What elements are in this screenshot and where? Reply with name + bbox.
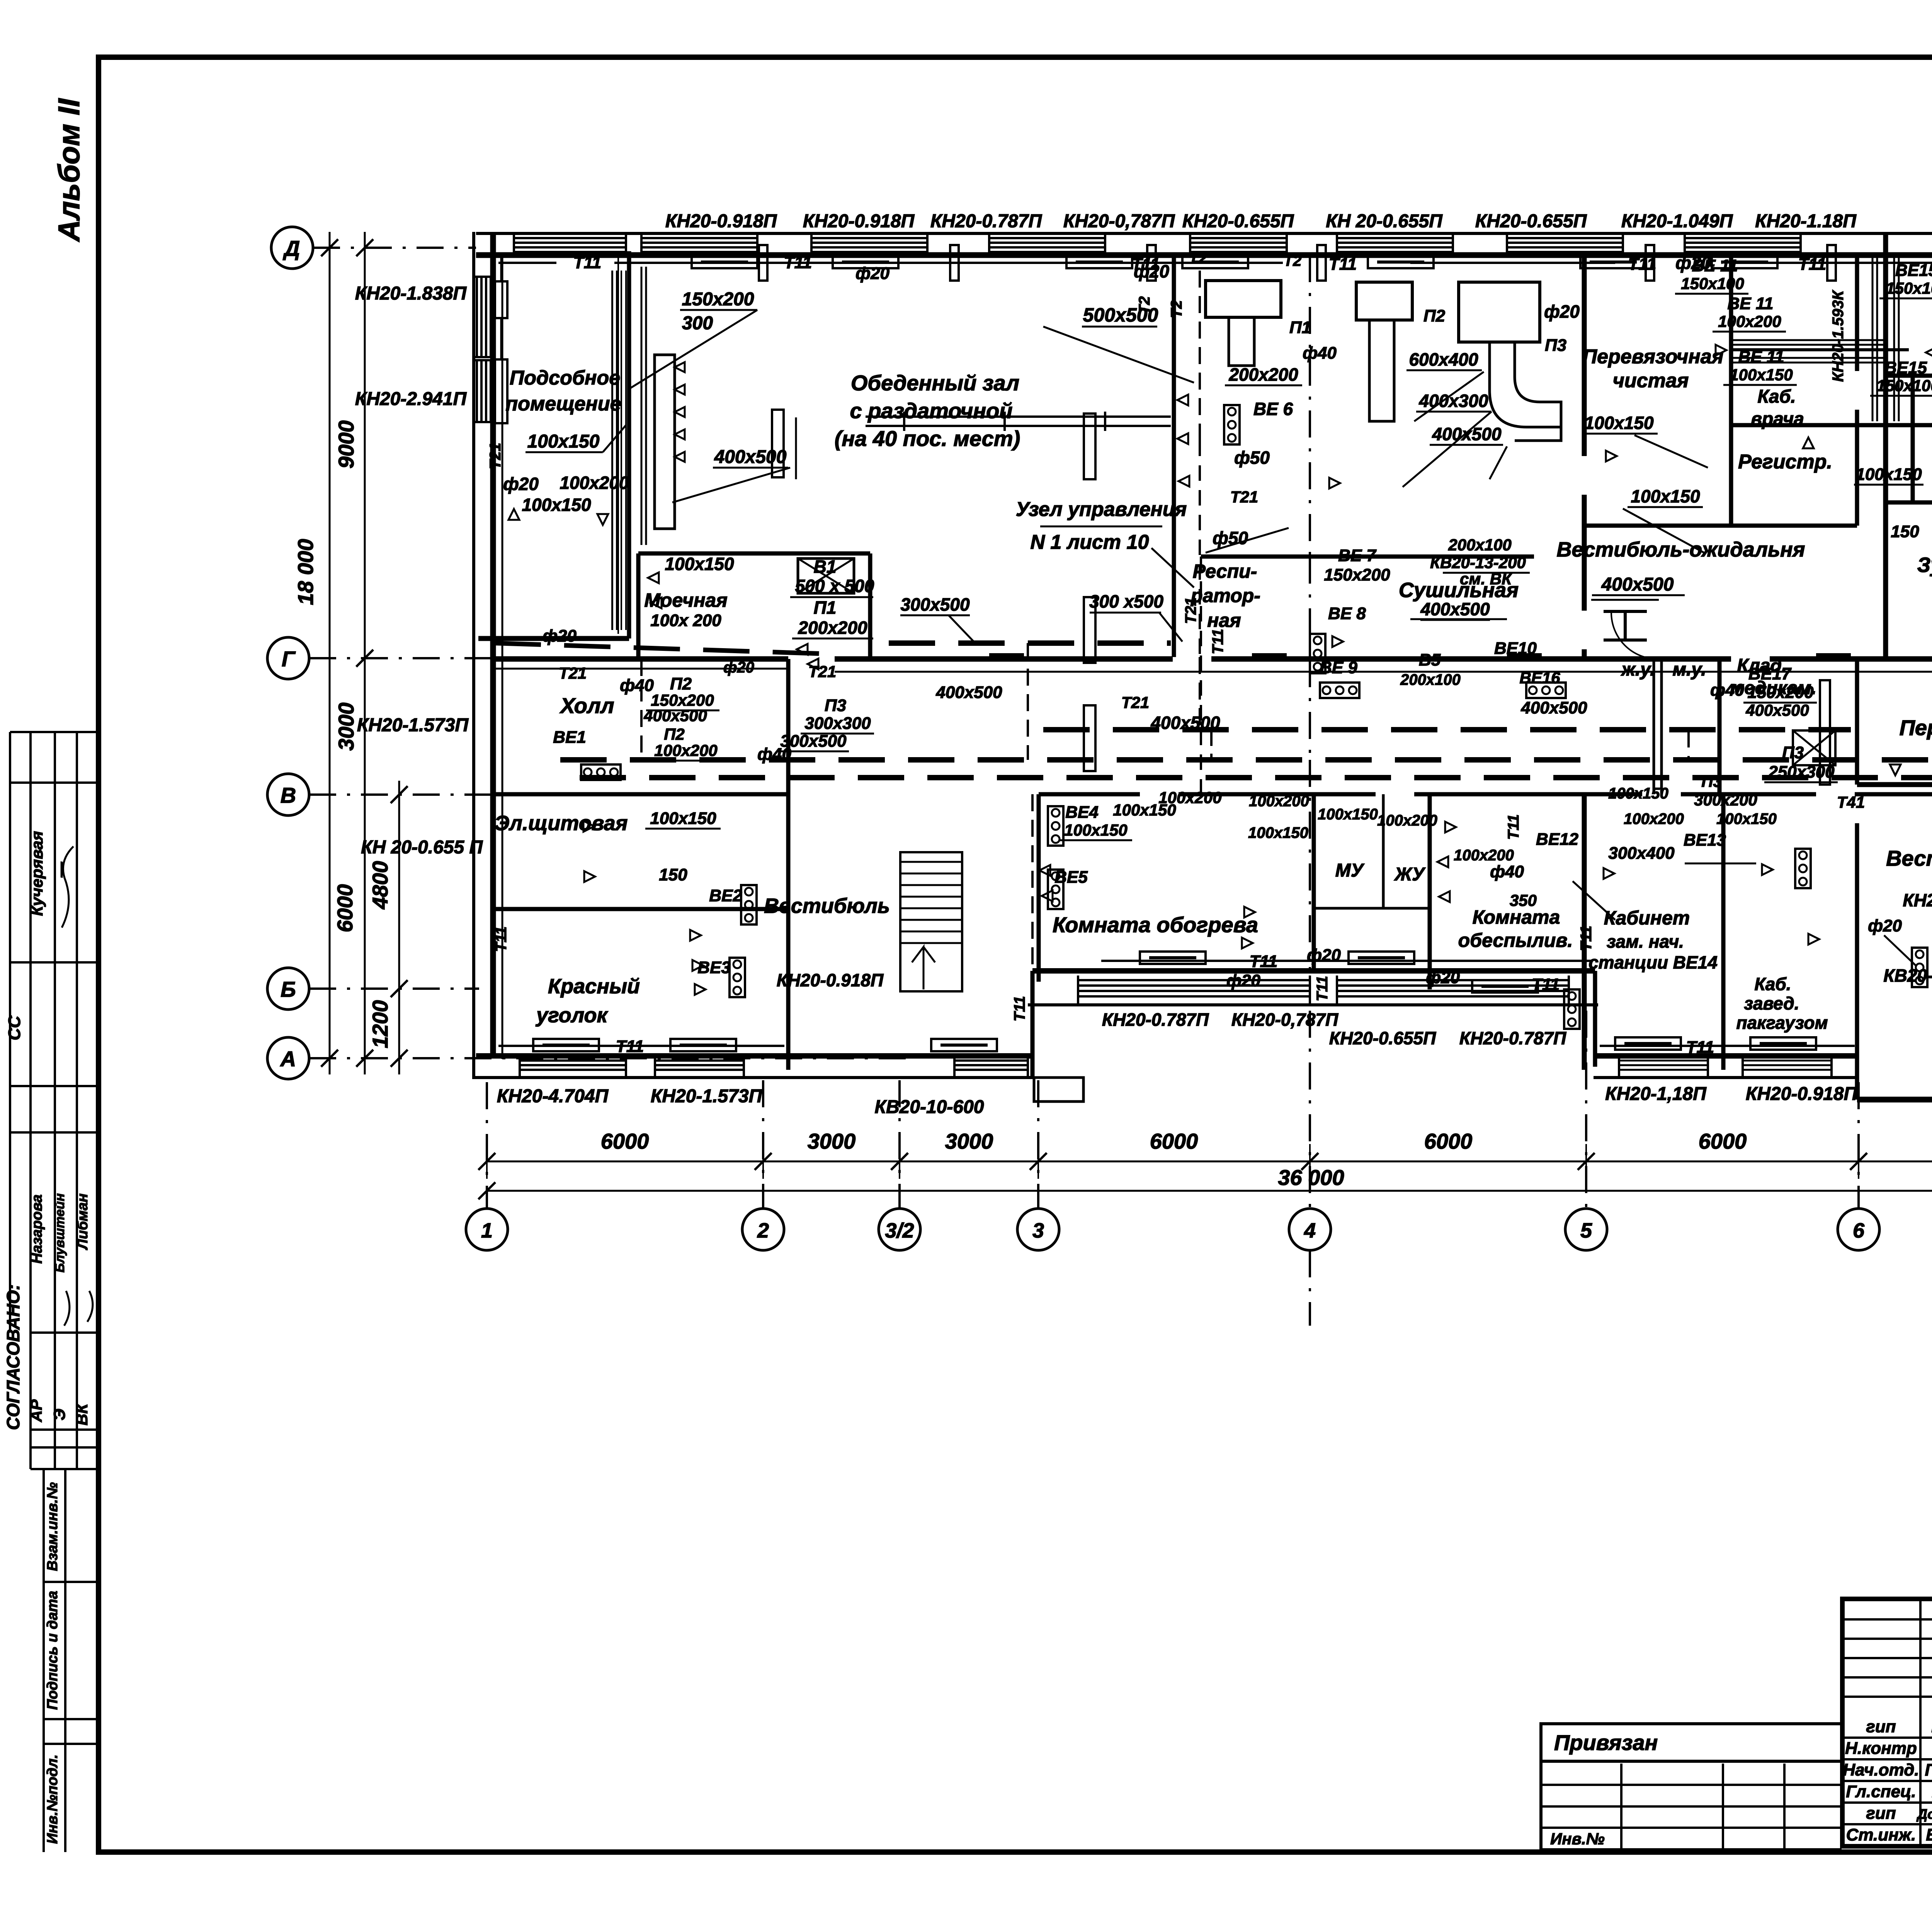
svg-text:Т11: Т11: [493, 926, 510, 952]
dashed box P3 corridor right: [1793, 730, 1835, 765]
sushilnaya walls: [1201, 555, 1534, 559]
svg-text:Т11: Т11: [1628, 255, 1656, 274]
axis circle 4: [1289, 1209, 1331, 1250]
svg-text:ж.у.: ж.у.: [1621, 659, 1655, 680]
svg-text:100х200: 100х200: [1454, 847, 1514, 864]
svg-text:Нач.отд.: Нач.отд.: [1843, 1760, 1919, 1779]
svg-text:ВЕ 7: ВЕ 7: [1338, 546, 1377, 565]
underline strokes for duct labels: [680, 309, 757, 311]
svg-text:П3: П3: [825, 696, 846, 715]
svg-text:100х150: 100х150: [1730, 366, 1793, 384]
svg-text:150х200: 150х200: [682, 289, 754, 310]
supply unit P2: [1356, 282, 1412, 320]
svg-text:КН20-0.655П: КН20-0.655П: [1182, 211, 1294, 232]
komnata vremen left wall: [1911, 376, 1915, 502]
svg-text:Т11: Т11: [616, 1037, 644, 1056]
small wall stub rects along G wall: [989, 653, 1024, 659]
svg-text:КН 20-0.655П: КН 20-0.655П: [1326, 211, 1443, 232]
svg-text:ф20: ф20: [1868, 916, 1902, 935]
svg-text:300х300: 300х300: [804, 714, 871, 733]
svg-text:400х500: 400х500: [1520, 698, 1587, 717]
svg-text:КН20-0.787П: КН20-0.787П: [1459, 1028, 1566, 1048]
svg-text:300х500: 300х500: [900, 594, 969, 615]
svg-text:Т11: Т11: [784, 253, 812, 272]
svg-text:ф40: ф40: [757, 745, 791, 764]
duct runs wing top: [1731, 339, 1886, 341]
svg-text:ф20: ф20: [1544, 301, 1580, 322]
svg-text:Э: Э: [50, 1409, 68, 1420]
svg-text:Каб.: Каб.: [1757, 386, 1796, 407]
svg-text:150х100: 150х100: [1886, 279, 1932, 297]
svg-text:КН20-1.049П: КН20-1.049П: [1621, 211, 1733, 232]
svg-text:Т11: Т11: [573, 253, 602, 272]
svg-text:1200: 1200: [368, 1000, 392, 1049]
svg-text:3/2: 3/2: [885, 1219, 914, 1242]
axis circle G: [267, 637, 309, 679]
svg-text:400х500: 400х500: [714, 447, 787, 467]
svg-text:Обеденный зал: Обеденный зал: [851, 371, 1019, 395]
axis circle A: [267, 1037, 309, 1079]
svg-text:ВЕ 11: ВЕ 11: [1727, 294, 1773, 313]
svg-text:100х200: 100х200: [1377, 812, 1437, 829]
exterior bottom wall: center block: [1032, 968, 1595, 974]
supply unit P3: [1459, 282, 1540, 342]
duct chase wall dining west: [611, 271, 613, 630]
svg-text:4: 4: [1304, 1219, 1316, 1242]
svg-text:400х500: 400х500: [935, 683, 1002, 702]
svg-text:Т21: Т21: [487, 443, 504, 470]
svg-text:П1: П1: [1289, 318, 1311, 337]
svg-text:Т11: Т11: [1578, 926, 1595, 951]
axis6 wall: [1855, 253, 1859, 371]
svg-text:Т11: Т11: [1686, 1038, 1714, 1057]
svg-text:СС: СС: [5, 1015, 24, 1040]
svg-text:Н.контр: Н.контр: [1845, 1739, 1917, 1758]
svg-text:Кабинет: Кабинет: [1604, 907, 1690, 929]
svg-text:П3: П3: [1545, 336, 1566, 355]
svg-text:Холл: Холл: [559, 693, 614, 718]
svg-text:Взам.инв.№: Взам.инв.№: [44, 1482, 61, 1571]
svg-text:6: 6: [1853, 1219, 1865, 1242]
svg-text:400х500: 400х500: [1432, 424, 1501, 444]
riser pipes crossing top wall: [759, 245, 767, 281]
svg-text:м.у.: м.у.: [1672, 659, 1706, 680]
svg-text:ф20: ф20: [723, 659, 754, 676]
exterior left wall: [472, 232, 475, 1079]
svg-text:Подсобное: Подсобное: [510, 367, 620, 389]
svg-text:400х500: 400х500: [1420, 599, 1490, 619]
svg-text:ф50: ф50: [1234, 448, 1270, 468]
svg-text:150х200: 150х200: [1747, 683, 1814, 702]
svg-text:300х400: 300х400: [1608, 844, 1675, 863]
svg-text:400х500: 400х500: [1601, 574, 1674, 595]
kab vracha walls: [1729, 253, 1733, 526]
klad medikam walls: [1718, 659, 1722, 794]
vestibule left wall: [786, 659, 791, 1070]
axis circle 2: [742, 1209, 784, 1250]
svg-text:3000: 3000: [808, 1129, 856, 1153]
svg-text:КН20-1.838П: КН20-1.838П: [355, 283, 467, 304]
svg-text:В: В: [281, 783, 296, 807]
svg-text:гип: гип: [1866, 1804, 1896, 1823]
svg-text:ф20: ф20: [1307, 946, 1341, 965]
left dimension chain 18000: [329, 232, 331, 1074]
svg-text:Т2: Т2: [1284, 252, 1302, 269]
axis line A: [309, 1057, 908, 1059]
svg-text:помещение: помещение: [505, 393, 621, 415]
svg-text:150х100: 150х100: [1681, 274, 1744, 293]
svg-text:ф20: ф20: [503, 474, 539, 494]
svg-text:400х500: 400х500: [1150, 713, 1220, 733]
exterior bottom wall: left block: [476, 1053, 1032, 1059]
svg-text:Г: Г: [282, 647, 296, 671]
svg-text:200х100: 200х100: [1448, 536, 1512, 554]
svg-text:150х100: 150х100: [1876, 376, 1932, 395]
axis circle 3/2: [879, 1209, 920, 1250]
svg-text:ВЕ4: ВЕ4: [1065, 803, 1099, 822]
svg-text:Каб.: Каб.: [1754, 974, 1791, 994]
svg-text:КН20-0.655П: КН20-0.655П: [1475, 211, 1587, 232]
svg-text:КН20-1.573К: КН20-1.573К: [1903, 890, 1932, 910]
svg-text:КН20-1,18П: КН20-1,18П: [1605, 1084, 1707, 1104]
svg-text:200х200: 200х200: [798, 618, 867, 638]
svg-text:КН20-0,787П: КН20-0,787П: [1063, 211, 1175, 232]
svg-text:Вестибюль-ожидальня: Вестибюль-ожидальня: [1557, 538, 1805, 561]
svg-text:КН20-0.918П: КН20-0.918П: [777, 970, 884, 990]
svg-text:ВЕ17: ВЕ17: [1748, 664, 1792, 683]
svg-text:обеспылив.: обеспылив.: [1458, 930, 1573, 951]
svg-text:ф40: ф40: [1303, 344, 1337, 363]
vent grille boxes: [581, 764, 621, 780]
duct riser columns dining: [772, 410, 784, 477]
svg-text:Т2: Т2: [1136, 296, 1153, 315]
wall G axis (main corridor wall): [492, 656, 788, 662]
uzel upravleniya wall: [1172, 253, 1176, 657]
svg-text:100х200: 100х200: [1249, 793, 1309, 810]
svg-text:П2: П2: [664, 725, 685, 743]
svg-text:Либман: Либман: [75, 1193, 91, 1251]
svg-text:пакгаузом: пакгаузом: [1736, 1013, 1828, 1033]
svg-text:Доброславский: Доброславский: [1916, 1806, 1932, 1822]
vertical axis dash-dot lines: [486, 1082, 488, 1209]
bottom dimension line (bays): [487, 1161, 1932, 1163]
svg-text:Т21: Т21: [808, 662, 836, 681]
svg-text:уголок: уголок: [535, 1004, 608, 1027]
svg-text:Красный: Красный: [548, 975, 640, 998]
svg-text:200х100: 200х100: [1400, 671, 1461, 688]
svg-text:КВ20-10-600: КВ20-10-600: [874, 1097, 984, 1117]
svg-text:П1: П1: [814, 598, 837, 618]
wc center walls: [1382, 794, 1385, 908]
axis5 wall: [1582, 253, 1587, 456]
duct flanges on dining duct: [903, 412, 905, 431]
axis line D: [313, 247, 476, 249]
duct wall lines dining: [617, 255, 619, 634]
dashed heating mains T21: [560, 757, 1932, 763]
svg-text:завед.: завед.: [1744, 993, 1799, 1013]
entrance porch left vestibule: [1034, 1078, 1083, 1102]
svg-text:ВЕ2: ВЕ2: [709, 886, 742, 905]
svg-text:100х200: 100х200: [1718, 312, 1781, 330]
svg-text:150: 150: [1891, 522, 1919, 541]
svg-text:Т11: Т11: [1505, 814, 1522, 840]
svg-text:ратор-: ратор-: [1190, 585, 1260, 606]
axis circle V: [267, 774, 309, 815]
svg-text:Назарова: Назарова: [29, 1194, 45, 1263]
svg-text:Д: Д: [283, 236, 300, 260]
svg-text:Т2: Т2: [1168, 300, 1185, 318]
svg-text:100х200: 100х200: [654, 741, 718, 759]
svg-text:100х150: 100х150: [1318, 806, 1378, 823]
svg-text:КН20-4.704П: КН20-4.704П: [497, 1086, 609, 1107]
exterior bottom wall: office block: [1595, 1053, 1857, 1059]
el. shchitovaya bottom wall: [492, 907, 788, 911]
svg-text:КН20-0.918П: КН20-0.918П: [803, 211, 915, 232]
right wing walls: [1883, 233, 1888, 659]
svg-text:—: —: [52, 861, 69, 878]
svg-text:ВЕ15: ВЕ15: [1884, 358, 1927, 377]
margin stack: vzam inv / podpis i data / inv n podl: [43, 1469, 45, 1852]
radiators along bottom walls: [498, 1045, 784, 1047]
leader lines: [630, 310, 757, 388]
svg-text:Комната обогрева: Комната обогрева: [1053, 913, 1258, 937]
svg-text:Белькевич: Белькевич: [1926, 1825, 1932, 1844]
svg-text:ВЕ 6: ВЕ 6: [1253, 399, 1293, 419]
svg-text:П3: П3: [1701, 772, 1722, 790]
svg-text:П2: П2: [1423, 306, 1446, 325]
dashed branch verticals: [640, 659, 643, 760]
svg-text:Вестибюль: Вестибюль: [764, 894, 890, 918]
porch windows center: [1078, 979, 1310, 981]
svg-text:Т21: Т21: [1121, 693, 1149, 712]
axis line B: [309, 987, 479, 990]
bottom dimension line 36000: [487, 1190, 1932, 1192]
heating pipe T11 top: [498, 262, 556, 264]
duct to moechnaya B1: [798, 558, 854, 593]
svg-text:ВЕ12: ВЕ12: [1536, 830, 1579, 849]
svg-text:КН20-0.787П: КН20-0.787П: [930, 211, 1043, 232]
heating room right wall: [1312, 794, 1316, 971]
heavy duct stack right wing corridor: [1872, 255, 1874, 421]
svg-text:100х150: 100х150: [1064, 821, 1128, 839]
svg-text:Т11: Т11: [1532, 975, 1560, 994]
left interior pipe risers: [502, 255, 503, 1059]
svg-text:100х150: 100х150: [1248, 824, 1308, 841]
svg-text:с раздаточной: с раздаточной: [850, 398, 1012, 423]
svg-text:ВЕ13: ВЕ13: [1684, 831, 1726, 850]
axis circle B: [267, 968, 309, 1010]
svg-text:Регистр.: Регистр.: [1738, 451, 1832, 473]
svg-text:КН20-0.918П: КН20-0.918П: [1746, 1084, 1858, 1104]
supply unit P1: [1206, 281, 1281, 317]
svg-text:ф20: ф20: [543, 627, 577, 645]
svg-text:100х150: 100х150: [1584, 413, 1653, 433]
perevyazochnaya chistaya door arcs: [1611, 613, 1658, 659]
svg-text:150х200: 150х200: [1324, 565, 1390, 584]
vent shaft dining: [655, 355, 675, 529]
I-beam symbol waiting hall: [1604, 610, 1647, 613]
svg-text:100х 200: 100х 200: [650, 611, 721, 630]
svg-text:В1: В1: [814, 557, 837, 577]
svg-text:Гл.спец.: Гл.спец.: [1846, 1782, 1916, 1801]
svg-text:(на 40 пос. мест): (на 40 пос. мест): [835, 426, 1020, 451]
svg-text:100х200: 100х200: [560, 473, 629, 493]
svg-text:КН20-1.573П: КН20-1.573П: [357, 715, 469, 735]
svg-text:Т11: Т11: [1209, 629, 1226, 654]
svg-text:Инв.№подл.: Инв.№подл.: [44, 1754, 61, 1844]
svg-text:КН20-0.787П: КН20-0.787П: [1102, 1010, 1209, 1030]
svg-text:Кучерявая: Кучерявая: [28, 831, 46, 916]
svg-text:КН20-0,787П: КН20-0,787П: [1231, 1010, 1338, 1030]
svg-text:300: 300: [682, 313, 713, 334]
svg-text:4800: 4800: [368, 861, 392, 910]
svg-text:100х150: 100х150: [1608, 785, 1668, 802]
svg-text:Т41: Т41: [1837, 793, 1865, 811]
svg-text:Т11: Т11: [1329, 255, 1357, 274]
axis circle 6: [1838, 1209, 1879, 1250]
perevyazochnaya lower wall: [1857, 782, 1932, 787]
svg-text:Альбом II: Альбом II: [52, 98, 86, 242]
svg-text:КН20-2.941П: КН20-2.941П: [355, 389, 467, 409]
svg-text:100х200: 100х200: [1158, 788, 1222, 807]
svg-text:ф20: ф20: [1134, 261, 1169, 281]
svg-text:КН20-1.573П: КН20-1.573П: [651, 1086, 763, 1107]
svg-text:ф20: ф20: [1226, 971, 1260, 990]
svg-text:Т11: Т11: [1250, 952, 1278, 971]
exterior top wall: [476, 232, 1932, 235]
svg-text:400х500: 400х500: [643, 707, 707, 725]
svg-text:КН20-1.593К: КН20-1.593К: [1830, 290, 1847, 382]
svg-text:300 х500: 300 х500: [1089, 591, 1163, 611]
svg-text:3000: 3000: [334, 703, 358, 751]
duct column pair right corridor: [1820, 680, 1830, 785]
svg-text:ВЕ15: ВЕ15: [1895, 261, 1932, 280]
staircase left vestibule: [900, 852, 962, 991]
svg-text:Грушкевич: Грушкевич: [1925, 1760, 1932, 1779]
dashed verticals center: [1031, 794, 1034, 971]
title block outer: [1842, 1599, 1932, 1846]
svg-text:Т11: Т11: [1314, 976, 1331, 1001]
axis circle 3: [1017, 1209, 1059, 1250]
svg-text:врача: врача: [1751, 409, 1804, 429]
office partition walls: [1721, 794, 1726, 1070]
svg-text:ф40: ф40: [1710, 681, 1744, 700]
svg-text:Т21: Т21: [559, 664, 587, 682]
svg-text:ная: ная: [1207, 609, 1241, 631]
svg-text:150: 150: [659, 865, 687, 884]
svg-text:2: 2: [757, 1219, 769, 1242]
svg-text:КН20-1.18П: КН20-1.18П: [1755, 211, 1857, 232]
svg-text:6000: 6000: [601, 1129, 649, 1153]
left sidebar approval table: [9, 732, 11, 1333]
svg-text:СОГЛАСОВАНО:: СОГЛАСОВАНО:: [3, 1284, 23, 1430]
svg-text:ВЕ3: ВЕ3: [697, 958, 731, 977]
svg-text:Ст.инж.: Ст.инж.: [1846, 1825, 1916, 1844]
svg-text:N 1 лист 10: N 1 лист 10: [1031, 531, 1149, 553]
svg-text:ЖУ: ЖУ: [1393, 864, 1426, 885]
svg-text:500 х 500: 500 х 500: [795, 576, 874, 596]
svg-text:Респи-: Респи-: [1193, 560, 1257, 582]
diffuser triangles: [509, 509, 519, 520]
radiators left wall: [495, 281, 507, 318]
svg-text:чистая: чистая: [1613, 369, 1689, 392]
svg-text:3: 3: [1032, 1219, 1044, 1242]
svg-text:6000: 6000: [1699, 1129, 1747, 1153]
wall V axis: [492, 792, 786, 797]
svg-text:Т2: Т2: [1189, 250, 1207, 267]
svg-text:100х150: 100х150: [650, 809, 716, 828]
svg-text:5: 5: [1580, 1219, 1592, 1242]
svg-text:Блувштейн: Блувштейн: [53, 1193, 67, 1273]
svg-text:АР: АР: [27, 1399, 45, 1422]
svg-text:18 000: 18 000: [293, 539, 318, 605]
svg-text:100х150: 100х150: [1855, 465, 1922, 484]
svg-text:Подпись и дата: Подпись и дата: [44, 1591, 61, 1710]
svg-text:6000: 6000: [1150, 1129, 1198, 1153]
svg-text:ф20: ф20: [855, 264, 889, 283]
svg-text:Зубоврачебный: Зубоврачебный: [1917, 553, 1932, 577]
svg-text:100х200: 100х200: [1624, 810, 1684, 827]
title block revision table: [1842, 1618, 1932, 1621]
podsobnoe bottom wall: [478, 636, 629, 641]
svg-text:400х500: 400х500: [1745, 701, 1809, 719]
svg-text:КВ20-10-600: КВ20-10-600: [1883, 965, 1932, 986]
svg-text:ф20: ф20: [1426, 968, 1460, 987]
podsobnoe right wall: [627, 251, 631, 638]
horizontal thin pipe G corridor: [492, 668, 788, 670]
svg-text:станции ВЕ14: станции ВЕ14: [1588, 952, 1718, 972]
svg-text:Вестибюль: Вестибюль: [1886, 846, 1932, 870]
svg-text:ф40: ф40: [620, 676, 654, 695]
svg-text:МУ: МУ: [1335, 860, 1365, 881]
svg-text:6000: 6000: [1424, 1129, 1473, 1153]
svg-text:Перевязочная: Перевязочная: [1583, 346, 1724, 368]
svg-text:Инв.№: Инв.№: [1550, 1830, 1605, 1848]
svg-text:П2: П2: [670, 674, 692, 693]
svg-text:100х150: 100х150: [665, 554, 734, 574]
svg-text:Эл.щитовая: Эл.щитовая: [495, 812, 628, 835]
svg-text:ВЕ 8: ВЕ 8: [1328, 604, 1366, 623]
svg-text:350: 350: [1510, 891, 1537, 909]
svg-text:100х150: 100х150: [1716, 810, 1777, 827]
privyazan block: [1541, 1724, 1842, 1761]
axis circle 1: [466, 1209, 508, 1250]
svg-text:Привязан: Привязан: [1554, 1730, 1658, 1755]
svg-text:Т11: Т11: [1011, 996, 1028, 1021]
svg-text:В5: В5: [1419, 650, 1441, 669]
svg-text:КН20-0.918П: КН20-0.918П: [665, 211, 777, 232]
svg-text:КН20-0.655П: КН20-0.655П: [1329, 1028, 1436, 1048]
svg-text:А: А: [280, 1047, 296, 1071]
svg-text:Т11: Т11: [1798, 255, 1827, 274]
axis circle 5: [1565, 1209, 1607, 1250]
svg-text:КН 20-0.655 П: КН 20-0.655 П: [361, 837, 483, 858]
svg-text:300х200: 300х200: [1694, 791, 1757, 809]
svg-text:ф20: ф20: [1675, 253, 1711, 273]
svg-text:Т21: Т21: [1182, 598, 1199, 624]
svg-text:200х200: 200х200: [1228, 364, 1298, 385]
svg-text:ВК: ВК: [73, 1403, 91, 1425]
axis line V: [309, 793, 788, 796]
svg-text:600х400: 600х400: [1409, 349, 1478, 369]
axis circle D: [271, 227, 313, 269]
svg-text:3000: 3000: [945, 1129, 993, 1153]
svg-text:зам. нач.: зам. нач.: [1607, 931, 1684, 952]
heating room left wall: [1037, 794, 1041, 982]
svg-text:Т21: Т21: [1230, 488, 1258, 506]
svg-text:Б: Б: [281, 977, 296, 1001]
svg-text:100х150: 100х150: [522, 495, 591, 515]
